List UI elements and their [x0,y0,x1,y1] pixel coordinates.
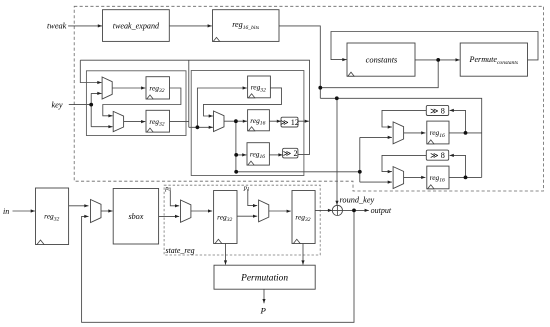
svg-text:Permutation: Permutation [240,274,288,284]
svg-text:≫ 2: ≫ 2 [283,149,298,158]
svg-text:≫ 12: ≫ 12 [280,118,299,127]
svg-text:tweak: tweak [47,22,67,31]
svg-text:key: key [52,100,63,109]
svg-text:≫ 8: ≫ 8 [430,151,445,160]
svg-text:output: output [371,206,392,215]
svg-text:P: P [260,306,267,316]
svg-text:sbox: sbox [128,212,143,221]
svg-text:≫ 8: ≫ 8 [430,106,445,115]
svg-text:in: in [3,207,9,216]
svg-text:round_key: round_key [340,195,375,204]
svg-text:tweak_expand: tweak_expand [113,21,160,30]
svg-text:constants: constants [366,55,398,64]
svg-text:state_reg: state_reg [166,246,195,255]
